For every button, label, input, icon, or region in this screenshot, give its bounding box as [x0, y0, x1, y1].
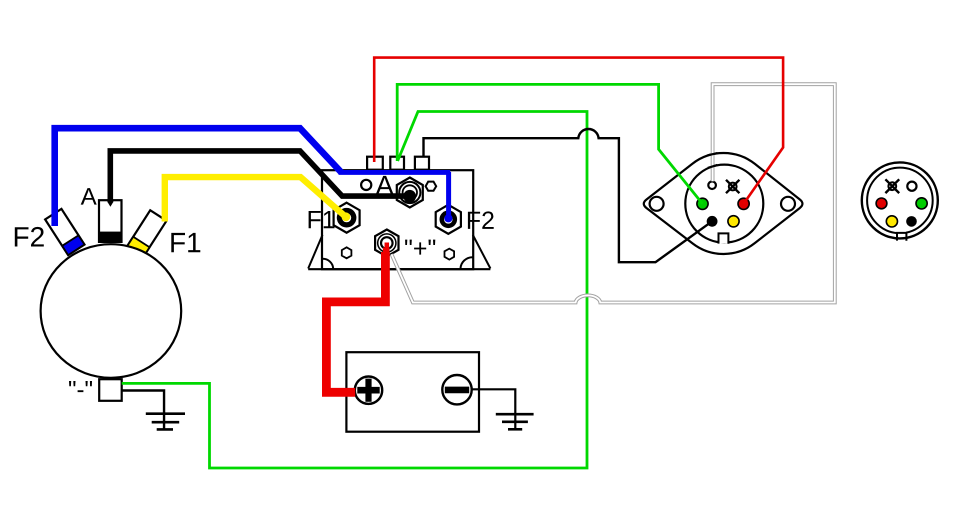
- label F1 solenoid: [309, 211, 335, 228]
- connector J2 pin white: [907, 182, 916, 191]
- connector J2 inner circle: [867, 168, 933, 234]
- motor terminal F1: [127, 210, 166, 256]
- wire black T3 to J1-black-pin: [424, 129, 713, 262]
- label F2 motor: [15, 227, 44, 247]
- connector J1 pin white: [708, 181, 716, 189]
- label F1 motor: [171, 233, 200, 252]
- wire green T2 to J1-green-pin: [397, 84, 702, 203]
- solenoid top terminal T1: [367, 157, 383, 170]
- solenoid hex stud plus: [375, 230, 398, 257]
- connector J1 pin black: [707, 216, 718, 227]
- wire green ground loop T2-to-motor-minus: [122, 112, 587, 469]
- wire blue motor-F2 to solenoid-F2: [55, 128, 453, 226]
- solenoid hex stud F1: [334, 203, 360, 233]
- connector J2 pin yellow: [886, 216, 897, 227]
- ground G1: [146, 414, 185, 430]
- label A motor: [81, 188, 97, 205]
- connector J1 mounting hole left: [650, 197, 664, 211]
- motor M1 body: [41, 244, 182, 378]
- solenoid top terminal T2: [390, 157, 404, 170]
- solenoid left foot: [308, 235, 322, 269]
- motor terminal A: [99, 200, 122, 242]
- connector J2 pin X: [885, 179, 899, 193]
- wire gray plus-to-J1-white-pin (double line): [392, 84, 835, 302]
- ground G2: [496, 414, 534, 429]
- connector J1 pin yellow: [728, 216, 739, 227]
- wire battery minus to ground G2: [472, 389, 516, 428]
- connector J1 keyway notch: [718, 233, 728, 243]
- solenoid small hole top-left: [361, 180, 371, 190]
- solenoid small hex bottom-right: [445, 249, 455, 260]
- solenoid mounting plate bottom line: [308, 268, 490, 270]
- connector J1 pin X: [726, 180, 739, 193]
- battery minus terminal: [442, 375, 471, 404]
- wire red solenoid-plus to battery-plus: [326, 243, 386, 393]
- label F2 solenoid: [468, 211, 494, 229]
- solenoid box U1: [322, 170, 473, 269]
- solenoid hex stud F2: [436, 205, 461, 234]
- wire red T1 to J1-red-pin: [374, 58, 783, 204]
- wire minus to ground G1: [122, 391, 164, 429]
- label plus solenoid: [405, 240, 435, 255]
- solenoid hex stud A: [397, 178, 423, 208]
- J1 outline patch over gray crossing (outer arc): [708, 153, 718, 155]
- connector J2 keyway notch: [897, 230, 907, 241]
- connector J2 pin green: [916, 198, 927, 209]
- motor terminal F2: [45, 209, 84, 255]
- wire black motor-A to solenoid-A: [107, 151, 416, 207]
- wire yellow motor-F1 to solenoid-F1: [165, 177, 350, 221]
- connector J1 pin red: [738, 198, 749, 209]
- solenoid small hole top-right: [426, 182, 437, 191]
- solenoid right corner arc: [461, 257, 473, 268]
- solenoid left corner arc: [323, 259, 333, 269]
- connector J2 outer circle: [862, 162, 938, 238]
- battery B1: [346, 352, 479, 432]
- solenoid small hex bottom-left: [342, 247, 352, 258]
- connector J1 pin green: [697, 198, 708, 209]
- solenoid right foot: [473, 235, 491, 269]
- J1 outline patch over gray crossing (inner arc): [708, 165, 718, 168]
- label minus motor: [69, 381, 92, 392]
- label A solenoid: [376, 176, 394, 195]
- connector J2 pin red: [876, 198, 887, 209]
- motor minus terminal: [99, 379, 122, 401]
- battery plus terminal: [355, 377, 382, 404]
- connector J1 face circle: [685, 165, 763, 243]
- connector J1 mounting hole right: [781, 197, 795, 211]
- solenoid top terminal T3: [415, 157, 429, 170]
- connector J2 pin black: [906, 216, 917, 227]
- connector J1 flange body: [644, 153, 803, 254]
